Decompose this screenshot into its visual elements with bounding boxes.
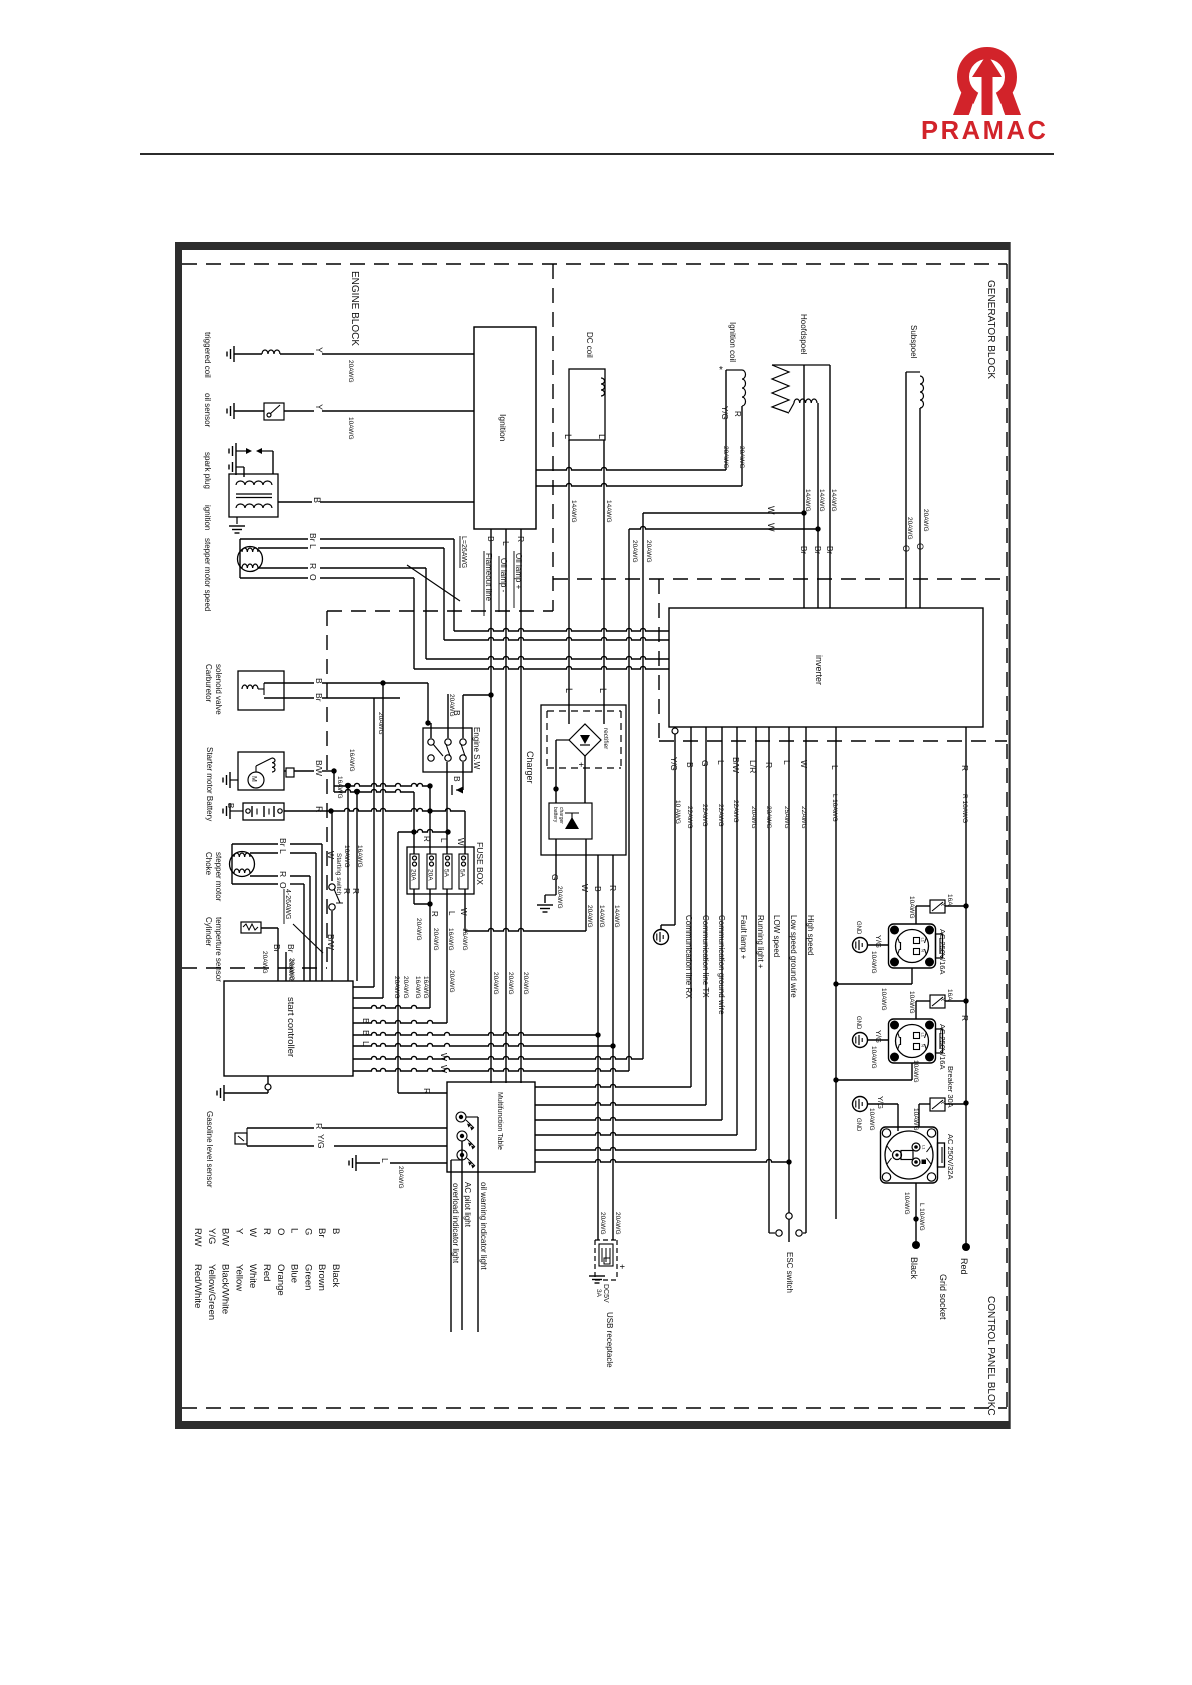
svg-text:White: White <box>247 1264 258 1288</box>
svg-text:L: L <box>597 434 607 439</box>
svg-text:Ignition coil: Ignition coil <box>728 322 737 362</box>
svg-text:10AWG: 10AWG <box>868 1108 875 1131</box>
svg-text:Starter motor Battery: Starter motor Battery <box>205 747 214 821</box>
Engine S.W switch box <box>423 728 472 772</box>
svg-text:O: O <box>275 1228 286 1235</box>
svg-text:L: L <box>563 434 573 439</box>
svg-text:Green: Green <box>302 1264 313 1290</box>
svg-text:R: R <box>261 1228 272 1235</box>
svg-text:R: R <box>516 536 526 542</box>
svg-text:B: B <box>226 803 235 808</box>
R R wires down to start controller <box>347 786 349 981</box>
L wire with ground into multifunction table <box>355 1155 357 1171</box>
svg-text:14AWG: 14AWG <box>598 905 605 928</box>
branch wires from starter B/W junction <box>333 771 335 792</box>
svg-text:20AWG: 20AWG <box>347 360 354 383</box>
svg-text:20AWG: 20AWG <box>432 928 439 951</box>
grid socket neutral wire and Black terminal <box>915 1183 917 1245</box>
svg-text:16AWG: 16AWG <box>348 749 355 772</box>
starter connector and wire B/W <box>286 768 294 777</box>
battery R wire across to fuse box <box>284 808 465 811</box>
ignition coil transformer <box>229 474 278 517</box>
svg-text:Br: Br <box>308 533 318 542</box>
svg-text:G: G <box>302 1228 313 1235</box>
starter motor box <box>238 752 284 790</box>
svg-text:B: B <box>593 886 603 892</box>
svg-text:Y/G: Y/G <box>669 757 678 771</box>
battery box <box>243 803 284 820</box>
wire Y/G and R from ignition coil down to ignition box <box>725 370 727 470</box>
svg-text:B: B <box>452 710 462 716</box>
inverter box <box>669 608 983 727</box>
svg-text:20AWG: 20AWG <box>402 976 409 999</box>
Engine SW pole2 vertical wire 20AWG to fuse L <box>447 694 449 738</box>
svg-text:Red: Red <box>959 1258 969 1275</box>
svg-text:Br: Br <box>278 838 288 847</box>
svg-text:16AWG: 16AWG <box>461 928 468 951</box>
svg-text:CONTROL PANEL BLOKC: CONTROL PANEL BLOKC <box>985 1296 996 1416</box>
svg-text:20AWG: 20AWG <box>586 905 593 928</box>
svg-text:20AWG: 20AWG <box>599 1212 606 1235</box>
svg-text:20AWG: 20AWG <box>631 540 638 563</box>
svg-text:L: L <box>782 760 792 765</box>
AC socket 2 earth ground GND <box>853 1033 868 1048</box>
svg-text:R: R <box>342 888 352 894</box>
charger outer box <box>541 705 626 855</box>
svg-text:oil warning indicator light: oil warning indicator light <box>479 1182 488 1270</box>
svg-text:temperture sensor: temperture sensor <box>214 917 223 982</box>
svg-text:Communication line TX: Communication line TX <box>701 915 710 998</box>
charger internal connections <box>584 756 586 803</box>
charger W wire to fuse box <box>585 839 587 931</box>
svg-text:20AWG: 20AWG <box>393 976 400 999</box>
svg-text:R: R <box>278 871 288 877</box>
svg-text:Y: Y <box>233 1228 244 1235</box>
header rule <box>140 153 1054 155</box>
svg-text:R: R <box>422 1088 432 1094</box>
svg-text:stepper motor: stepper motor <box>214 852 223 902</box>
svg-text:L: L <box>308 544 318 549</box>
svg-text:Br: Br <box>825 546 834 554</box>
svg-text:Y/G: Y/G <box>316 1134 326 1149</box>
svg-text:Grid socket: Grid socket <box>938 1274 948 1320</box>
svg-text:AC 250V/16A: AC 250V/16A <box>938 1024 947 1069</box>
communication wires B G L B/W from inverter <box>690 727 692 1087</box>
Hoofdspoel tap wires Br Br Br to inverter top <box>803 365 805 608</box>
svg-text:Running light +: Running light + <box>756 915 765 969</box>
svg-text:ignition: ignition <box>203 505 212 530</box>
fuse bottom connections <box>413 889 415 904</box>
gasoline level sensor symbol <box>235 1133 247 1144</box>
svg-text:M: M <box>250 776 257 782</box>
svg-text:10AWG: 10AWG <box>908 896 915 919</box>
svg-text:AC 250V/32A: AC 250V/32A <box>946 1134 955 1179</box>
svg-text:R: R <box>314 806 324 813</box>
svg-text:25AWG: 25AWG <box>783 806 790 829</box>
Engine SW pole1 wire from carburetor junction <box>430 723 432 738</box>
svg-text:16AWG: 16AWG <box>356 845 363 868</box>
svg-text:3A: 3A <box>595 1289 602 1298</box>
svg-text:16AWG: 16AWG <box>447 928 454 951</box>
svg-text:R: R <box>960 1015 970 1021</box>
Engine SW pole3 wire B to flameout junction <box>462 695 464 738</box>
svg-text:10AWG: 10AWG <box>870 1046 877 1069</box>
svg-text:triggered coil: triggered coil <box>203 332 212 378</box>
svg-text:solenoid valve: solenoid valve <box>214 664 223 715</box>
svg-text:L1: L1 <box>921 938 926 943</box>
svg-text:Black: Black <box>330 1264 341 1287</box>
svg-text:W: W <box>326 851 336 859</box>
dashed block boundaries <box>182 263 1007 265</box>
svg-text:B/W: B/W <box>731 757 741 773</box>
svg-text:Subspoel: Subspoel <box>909 325 918 359</box>
svg-text:14AWG: 14AWG <box>804 489 811 512</box>
svg-text:DC coil: DC coil <box>585 332 594 358</box>
svg-text:Y/G: Y/G <box>206 1228 217 1244</box>
svg-text:5A: 5A <box>459 869 466 878</box>
svg-text:overload indicator light: overload indicator light <box>451 1183 460 1264</box>
svg-text:L: L <box>447 911 456 916</box>
svg-text:oil sensor: oil sensor <box>203 393 212 428</box>
svg-text:Br: Br <box>286 944 296 953</box>
wires from stepper corners into inverter left edge <box>454 628 669 631</box>
svg-text:B/W: B/W <box>220 1228 231 1246</box>
svg-text:Br: Br <box>272 944 282 953</box>
svg-text:20AWG: 20AWG <box>415 918 422 941</box>
svg-text:AC 250V/16A: AC 250V/16A <box>938 929 947 974</box>
svg-text:W: W <box>247 1228 258 1237</box>
svg-text:20AWG: 20AWG <box>906 517 913 540</box>
svg-text:20AWG: 20AWG <box>738 446 745 469</box>
svg-text:B: B <box>312 497 322 503</box>
Subspoel wires O O to inverter <box>905 372 907 608</box>
svg-text:L: L <box>361 1041 371 1046</box>
svg-text:Y: Y <box>314 347 324 353</box>
inverter output wires downward <box>674 727 676 925</box>
svg-text:B/W: B/W <box>314 760 324 776</box>
wire 20AWG down from carburetor B to start controller <box>382 683 384 998</box>
wire B: ignition coil to ignition box <box>278 501 312 503</box>
svg-text:20AWG: 20AWG <box>377 712 384 735</box>
svg-text:Oil lamp +: Oil lamp + <box>514 553 523 590</box>
svg-text:AC pilot light: AC pilot light <box>463 1182 472 1228</box>
svg-text:O: O <box>308 574 318 581</box>
cylinder temperature sensor resistor <box>241 922 261 933</box>
svg-text:L=26AWG: L=26AWG <box>460 536 467 568</box>
svg-text:L: L <box>598 688 608 693</box>
svg-text:x: x <box>939 903 945 906</box>
choke stepper motor <box>230 852 255 877</box>
svg-text:L: L <box>439 838 448 843</box>
breaker 30A <box>930 1098 945 1111</box>
wires B Br from carburetor <box>264 682 314 684</box>
svg-text:x: x <box>939 1101 945 1104</box>
svg-text:R: R <box>764 762 774 768</box>
svg-text:LOW speed: LOW speed <box>772 915 781 957</box>
svg-text:DC5V: DC5V <box>602 1284 609 1303</box>
svg-text:Cylinder: Cylinder <box>204 917 213 947</box>
svg-text:Engine S.W: Engine S.W <box>472 727 481 770</box>
svg-text:10AWG: 10AWG <box>347 417 354 440</box>
svg-text:20AWG: 20AWG <box>507 972 514 995</box>
svg-text:rectifier: rectifier <box>602 728 609 750</box>
svg-text:10AWG: 10AWG <box>870 951 877 974</box>
svg-text:Br: Br <box>799 546 808 554</box>
svg-text:Orange: Orange <box>275 1264 286 1296</box>
svg-text:20AWG: 20AWG <box>522 972 529 995</box>
svg-text:Yellow/Green: Yellow/Green <box>206 1264 217 1320</box>
svg-text:R: R <box>733 411 742 417</box>
svg-text:Br: Br <box>314 693 324 702</box>
svg-text:Charger: Charger <box>525 751 535 784</box>
charger B and R wires down to USB <box>597 855 599 1240</box>
indicator light wires and labels <box>466 1116 478 1118</box>
svg-text:22AWG: 22AWG <box>732 800 739 823</box>
svg-text:W: W <box>766 523 776 532</box>
svg-text:N: N <box>921 1044 926 1047</box>
svg-text:B: B <box>314 678 324 684</box>
svg-text:L: L <box>289 1228 300 1233</box>
DC coil box <box>569 369 605 440</box>
svg-text:Communication line RX: Communication line RX <box>684 915 693 999</box>
svg-text:Choke: Choke <box>204 852 213 876</box>
svg-text:High speed: High speed <box>806 915 815 955</box>
Red terminal <box>962 1243 970 1251</box>
svg-text:20AWG: 20AWG <box>492 972 499 995</box>
svg-text:start controller: start controller <box>285 997 296 1057</box>
svg-text:Communication ground wire: Communication ground wire <box>717 915 726 1015</box>
svg-text:14AWG: 14AWG <box>570 500 577 523</box>
W W wires from start controller to Hoofdspoel taps <box>801 510 806 515</box>
svg-text:spark plug: spark plug <box>203 452 212 489</box>
svg-text:Carburetor: Carburetor <box>204 664 213 703</box>
svg-text:Oil lamp -: Oil lamp - <box>499 558 508 593</box>
svg-text:R: R <box>308 563 318 569</box>
svg-text:Y/G: Y/G <box>876 1096 885 1109</box>
svg-text:20AWG: 20AWG <box>922 509 929 532</box>
svg-text:L: L <box>830 765 840 770</box>
svg-text:L: L <box>564 688 574 693</box>
svg-text:W: W <box>580 884 590 892</box>
svg-text:20AWG: 20AWG <box>448 970 455 993</box>
svg-text:20AWG: 20AWG <box>614 1212 621 1235</box>
svg-text:Black/White: Black/White <box>220 1264 231 1314</box>
grid socket earth ground <box>853 1097 868 1112</box>
svg-text:Hoofdspoel: Hoofdspoel <box>799 314 808 355</box>
svg-text:Br: Br <box>316 1228 327 1238</box>
svg-text:PRAMAC: PRAMAC <box>921 117 1049 145</box>
svg-text:20AWG: 20AWG <box>722 446 729 469</box>
svg-text:B: B <box>361 1030 371 1036</box>
svg-text:L 10AWG: L 10AWG <box>918 1203 925 1231</box>
svg-text:20A: 20A <box>410 869 417 881</box>
svg-text:ENGINE BLOCK: ENGINE BLOCK <box>349 271 360 346</box>
wire Br down to start controller <box>373 698 375 987</box>
svg-text:Brown: Brown <box>316 1264 327 1291</box>
svg-text:22AWG: 22AWG <box>701 804 708 827</box>
wires B L R out of ignition box bottom (flameout / oil lamp) <box>490 529 492 1083</box>
starting switch <box>331 811 333 881</box>
svg-text:B/W: B/W <box>326 934 336 950</box>
svg-text:16AWG: 16AWG <box>343 845 350 868</box>
DC coil output wires L L to charger rectifier <box>568 440 570 724</box>
PRAMAC logo <box>921 53 1049 145</box>
charger G wire to ground <box>555 839 557 895</box>
AC socket 1 earth ground GND <box>853 938 868 953</box>
svg-text:G: G <box>550 874 560 881</box>
svg-text:Y/G: Y/G <box>874 935 883 948</box>
svg-text:W: W <box>439 1065 449 1073</box>
grid socket <box>881 1127 938 1183</box>
page frame: outer border of schematic sheet <box>175 242 182 1429</box>
svg-text:B: B <box>330 1228 341 1234</box>
svg-text:20AWG: 20AWG <box>287 959 294 982</box>
stepper motor speed: motor circle <box>238 547 263 572</box>
svg-text:GND: GND <box>855 921 861 935</box>
svg-text:Multifunction Table: Multifunction Table <box>496 1092 503 1150</box>
svg-text:inverter: inverter <box>814 655 824 685</box>
svg-text:*: * <box>719 365 723 376</box>
svg-text:GENERATOR BLOCK: GENERATOR BLOCK <box>985 280 996 379</box>
oil sensor: ground, switch box, wire Y <box>233 403 235 419</box>
svg-text:USB receptacle: USB receptacle <box>605 1312 614 1368</box>
svg-text:5A: 5A <box>443 869 450 878</box>
svg-text:O: O <box>278 882 288 889</box>
svg-text:Y: Y <box>314 404 324 410</box>
svg-text:10AWG: 10AWG <box>908 991 915 1014</box>
battery charger box with diode <box>549 803 592 839</box>
svg-text:+: + <box>617 1264 627 1269</box>
USB receptacle <box>595 1239 617 1241</box>
svg-text:stepper motor speed: stepper motor speed <box>203 538 212 611</box>
svg-text:W: W <box>799 760 809 768</box>
AC socket 2 <box>889 1019 936 1063</box>
svg-text:FUSE BOX: FUSE BOX <box>475 842 485 885</box>
svg-text:W: W <box>459 908 468 916</box>
svg-text:Black: Black <box>909 1257 919 1280</box>
start controller ground G <box>267 1076 269 1084</box>
svg-text:10AWG: 10AWG <box>912 1060 919 1083</box>
svg-text:R: R <box>960 765 970 771</box>
AC socket 1 <box>889 924 936 968</box>
svg-text:10 AWG: 10 AWG <box>674 800 681 824</box>
svg-text:L: L <box>716 760 726 765</box>
svg-text:Y/G: Y/G <box>874 1030 883 1043</box>
svg-text:O: O <box>901 545 911 552</box>
carburetor solenoid valve box <box>238 671 284 710</box>
leader note L=26AWG <box>407 565 460 601</box>
svg-text:Yellow: Yellow <box>233 1264 244 1291</box>
multifunction right side wires to inverter harness <box>535 1084 691 1087</box>
fuse top connections <box>413 792 415 854</box>
lamp / speed wires L/R R L W from inverter <box>755 727 757 1150</box>
svg-text:B: B <box>361 1018 371 1024</box>
svg-text:charger: charger <box>558 807 564 824</box>
svg-text:G: G <box>700 760 710 767</box>
svg-text:L1: L1 <box>922 1145 927 1150</box>
svg-text:22AWG: 22AWG <box>717 804 724 827</box>
indicator LEDs <box>456 1112 466 1122</box>
svg-text:14AWG: 14AWG <box>613 905 620 928</box>
svg-text:O: O <box>915 543 925 550</box>
svg-text:N: N <box>921 949 926 952</box>
spark plug gap with arrows <box>235 443 237 459</box>
svg-text:Blue: Blue <box>289 1264 300 1283</box>
svg-text:Breaker 30A: Breaker 30A <box>946 1066 955 1108</box>
svg-text:W: W <box>766 506 776 515</box>
svg-text:23AWG: 23AWG <box>765 806 772 829</box>
ignition module box <box>474 327 536 529</box>
svg-text:Flameout line: Flameout line <box>484 553 493 602</box>
svg-text:R: R <box>351 888 361 894</box>
svg-text:GND: GND <box>855 1118 861 1132</box>
svg-text:16A: 16A <box>946 894 953 906</box>
AC socket 2 neutral wire to L bus <box>911 1063 913 1080</box>
AC socket 1 breaker 16A <box>930 900 945 913</box>
rectifier dashed box and diamond <box>547 710 621 712</box>
svg-text:14AWG: 14AWG <box>830 489 837 512</box>
AC output L and R 10AWG wires <box>835 727 837 1219</box>
svg-text:R: R <box>608 885 618 891</box>
svg-text:B: B <box>452 776 462 782</box>
multifunction table box <box>447 1082 535 1172</box>
stepper motor wires Br L R O to inverter <box>240 538 308 540</box>
svg-text:R 10AWG: R 10AWG <box>961 794 968 823</box>
svg-text:L: L <box>380 1158 390 1163</box>
svg-text:16AWG: 16AWG <box>336 776 343 799</box>
svg-text:L: L <box>278 849 288 854</box>
svg-text:22AWG: 22AWG <box>686 806 693 829</box>
svg-text:L1: L1 <box>921 1033 926 1038</box>
svg-text:20A: 20A <box>427 869 434 881</box>
svg-text:10AWG: 10AWG <box>880 988 887 1011</box>
ESC switch <box>786 1213 792 1219</box>
svg-text:L 10AWG: L 10AWG <box>831 794 838 822</box>
svg-text:Low speed ground wire: Low speed ground wire <box>789 915 798 998</box>
start controller box <box>224 981 353 1076</box>
svg-text:Starting switch: Starting switch <box>335 853 342 896</box>
svg-text:R/W: R/W <box>192 1228 203 1247</box>
AC socket 2 breaker 16A <box>930 995 945 1008</box>
svg-text:20AWG: 20AWG <box>645 540 652 563</box>
svg-text:20AWG: 20AWG <box>261 951 268 974</box>
svg-text:4-26AWG: 4-26AWG <box>284 889 291 919</box>
svg-text:14AWG: 14AWG <box>818 489 825 512</box>
svg-text:Red: Red <box>261 1264 272 1281</box>
svg-text:Br: Br <box>813 546 822 554</box>
svg-text:10AWG: 10AWG <box>903 1192 910 1215</box>
svg-text:x: x <box>939 998 945 1001</box>
svg-text:20AWG: 20AWG <box>750 806 757 829</box>
svg-text:L/R: L/R <box>748 760 758 773</box>
svg-text:16AWG: 16AWG <box>422 976 429 999</box>
svg-text:B: B <box>486 536 496 542</box>
svg-text:W: W <box>456 838 465 846</box>
svg-text:14AWG: 14AWG <box>605 500 612 523</box>
wire from fuse bus down to multifunction R input <box>397 832 399 1093</box>
AC socket 1 neutral wire to L bus <box>911 968 913 984</box>
fuse box <box>407 847 474 894</box>
svg-text:ESC switch: ESC switch <box>785 1252 794 1293</box>
svg-text:W: W <box>439 1053 449 1061</box>
svg-text:Red/White: Red/White <box>192 1264 203 1308</box>
svg-text:16AWG: 16AWG <box>414 976 421 999</box>
svg-text:Ignition: Ignition <box>498 414 508 442</box>
start controller right-edge wires <box>353 986 374 988</box>
svg-text:B: B <box>685 762 695 768</box>
svg-text:Y/G: Y/G <box>720 406 729 420</box>
choke wires Br L R O to start controller <box>232 843 278 845</box>
